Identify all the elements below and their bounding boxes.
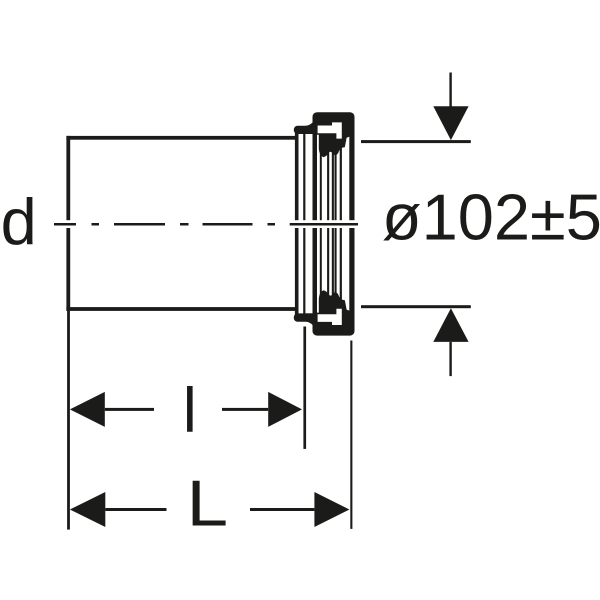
svg-text:ø102±5: ø102±5 xyxy=(382,181,600,254)
seal hook channel bottom xyxy=(318,309,342,325)
dimension l xyxy=(70,392,302,427)
diameter extension line top xyxy=(361,140,471,143)
svg-text:L: L xyxy=(187,467,229,540)
diameter dimension arrow top xyxy=(433,73,468,141)
diameter extension line bottom xyxy=(361,305,471,308)
pipe end edge line xyxy=(303,131,305,316)
svg-text:d: d xyxy=(1,185,37,258)
svg-text:l: l xyxy=(183,376,197,446)
centerline halo gap xyxy=(50,220,361,228)
dimension L xyxy=(70,492,350,527)
seal lip bottom xyxy=(294,313,317,321)
seal lip bottom junction fillet xyxy=(306,313,314,326)
seal lip top xyxy=(294,126,317,134)
dimension l extension line left xyxy=(67,311,70,530)
dimension L extension line right xyxy=(350,341,352,529)
seal lip top junction fillet xyxy=(306,122,314,135)
diameter dimension arrow bottom xyxy=(433,308,468,376)
dimension l extension line right xyxy=(303,327,306,449)
fastening ring body xyxy=(313,112,355,335)
centerline xyxy=(54,223,358,226)
fastening ring ribs xyxy=(320,147,342,302)
pipe body outline xyxy=(66,136,295,311)
seal sleeve outer edge line xyxy=(295,131,299,316)
seal hook channel top xyxy=(318,122,342,138)
